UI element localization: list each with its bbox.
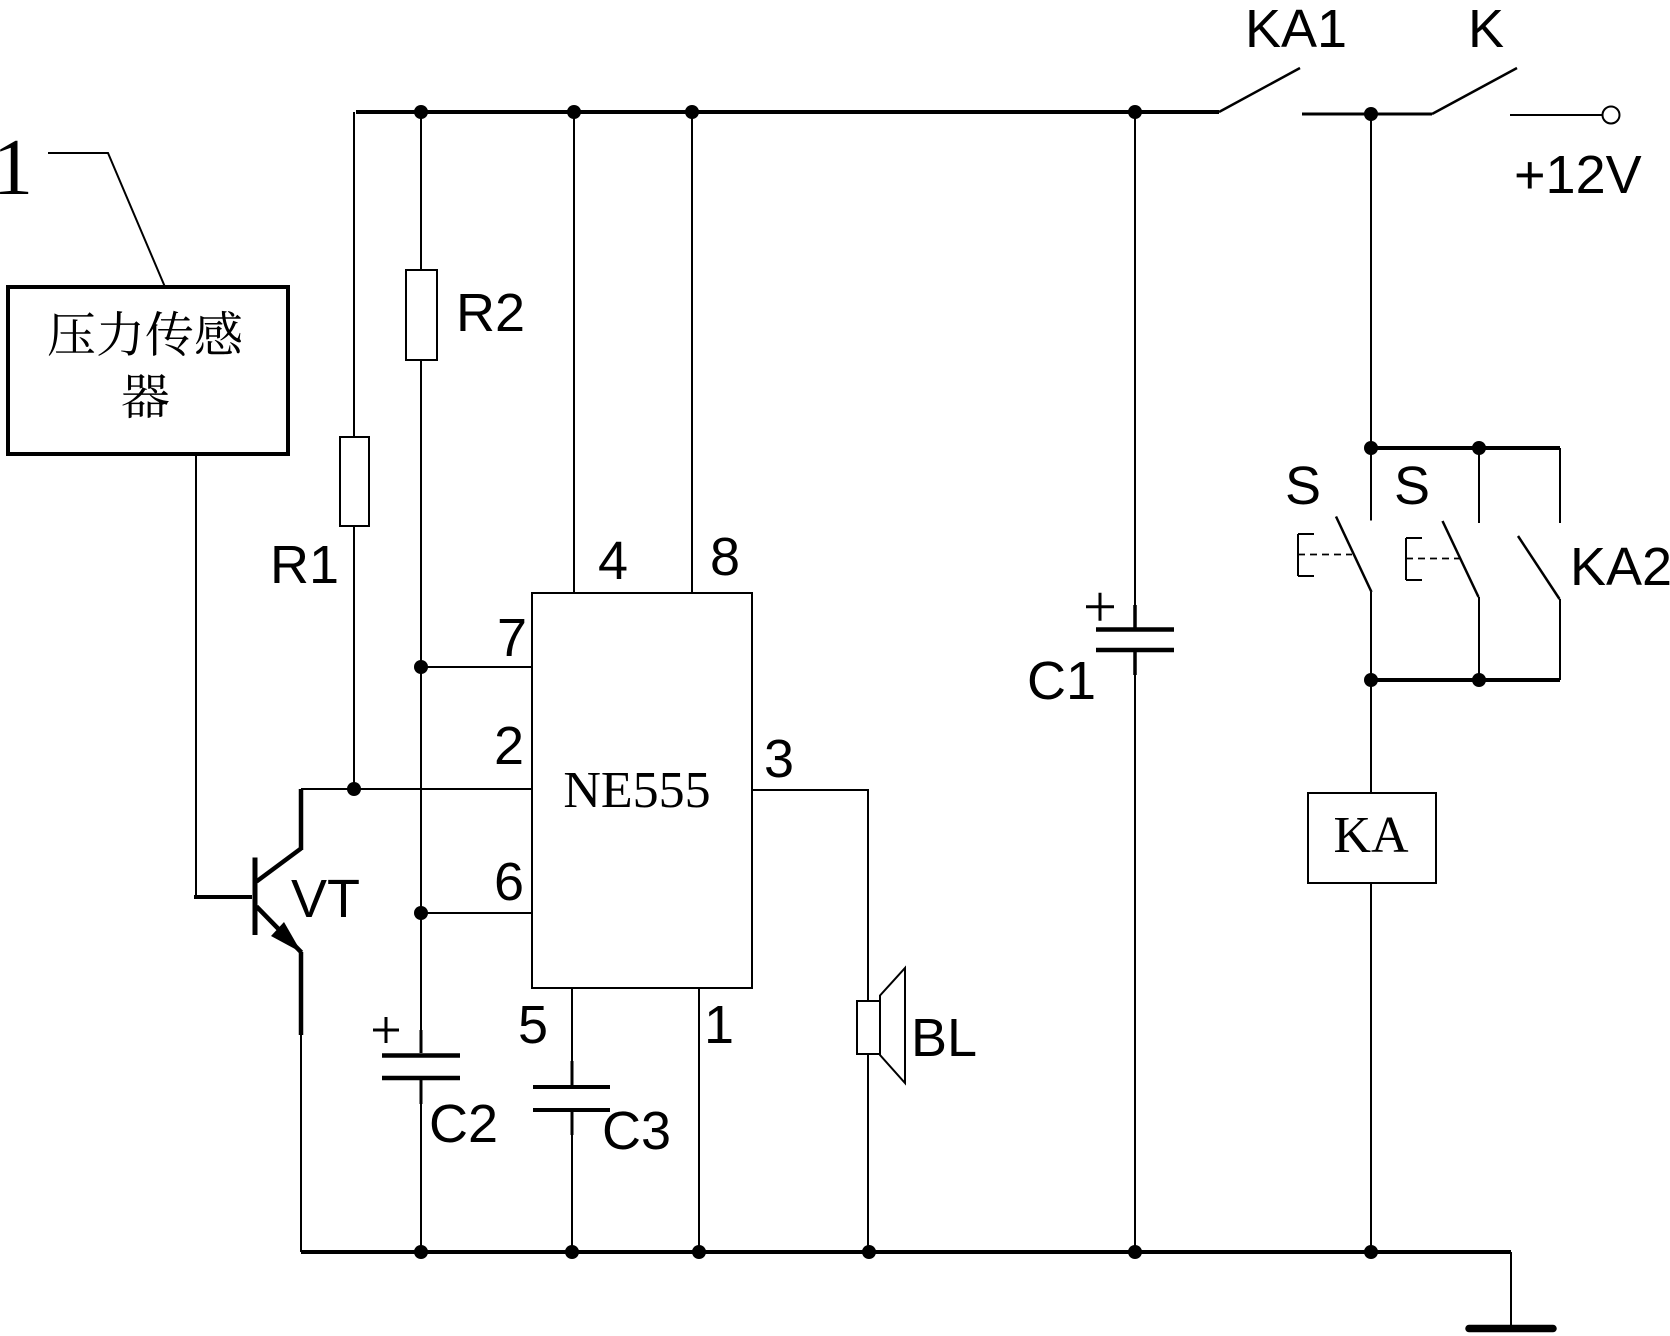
svg-text:KA1: KA1: [1245, 0, 1347, 59]
node junction dot S2 top: [1472, 441, 1486, 455]
switch S2 actuator bracket: [1406, 538, 1422, 580]
node junction dot S2 bottom: [1472, 673, 1486, 687]
svg-text:KA: KA: [1333, 807, 1409, 864]
switch S1 pushbutton: [1370, 448, 1372, 521]
svg-text:2: 2: [494, 716, 524, 776]
transistor VT emitter arrowhead: [271, 922, 302, 953]
svg-text:C1: C1: [1027, 651, 1096, 711]
svg-text:K: K: [1468, 0, 1504, 59]
svg-text:+12V: +12V: [1514, 145, 1642, 205]
wire top supply bus: [356, 110, 1219, 114]
node junction dot K branch: [1364, 107, 1378, 121]
relay coil KA box: [1308, 793, 1436, 883]
node junction dot BL/gnd: [862, 1245, 876, 1259]
node junction dot pin4/top bus: [567, 105, 581, 119]
wire leader line callout 1: [48, 153, 165, 287]
wire between KA1 and K: [1302, 113, 1432, 116]
svg-text:4: 4: [598, 531, 628, 591]
wire pin 3 to speaker: [752, 790, 868, 1001]
wire K to +12V terminal: [1510, 114, 1602, 116]
node junction dot C1/gnd: [1128, 1245, 1142, 1259]
wire pin2 net (VT collector - R1 - NE555 pin2): [301, 788, 532, 790]
wire sensor output to VT base: [195, 454, 197, 897]
wire ground bus: [301, 1250, 1511, 1254]
node junction dot C1/top bus: [1128, 105, 1142, 119]
node junction dot KA/gnd: [1364, 1245, 1378, 1259]
wire S section bottom rail: [1371, 678, 1560, 682]
svg-text:8: 8: [710, 527, 740, 587]
capacitor C1 polarity plus: [1086, 593, 1114, 621]
wire speaker to ground bus: [867, 1054, 869, 1252]
wire ground bus drop: [1510, 1252, 1512, 1326]
svg-text:6: 6: [494, 852, 524, 912]
node junction dot R2/pin7: [414, 660, 428, 674]
resistor R2: [420, 112, 422, 270]
capacitor C1: [1134, 112, 1136, 628]
node junction dot R2/top bus: [414, 105, 428, 119]
wire KA coil to ground bus: [1370, 883, 1372, 1252]
speaker BL: [857, 1001, 880, 1054]
svg-text:NE555: NE555: [563, 762, 710, 819]
svg-text:S: S: [1285, 456, 1321, 516]
capacitor C2: [420, 913, 422, 1053]
node junction dot R2/pin6: [414, 906, 428, 920]
label pressure sensor text line 2: [122, 374, 168, 418]
switch KA2 contact: [1559, 448, 1561, 523]
switch K blade: [1432, 68, 1517, 114]
wire pin 5: [571, 988, 573, 1061]
node junction dot S1 bottom: [1364, 673, 1378, 687]
node junction dot C3/gnd: [565, 1245, 579, 1259]
wire K branch down to S rail: [1370, 114, 1372, 448]
label pressure sensor text line 1: [49, 311, 241, 418]
svg-text:1: 1: [704, 995, 734, 1055]
wire pin 6 stub: [421, 912, 532, 914]
svg-text:C2: C2: [429, 1094, 498, 1154]
resistor R1: [353, 112, 355, 437]
capacitor C2 polarity plus: [373, 1017, 399, 1043]
svg-text:VT: VT: [291, 869, 360, 929]
wire VT emitter to ground bus: [300, 1035, 302, 1252]
wire pin 8: [691, 112, 693, 593]
node junction dot pin1/gnd: [692, 1245, 706, 1259]
block pressure sensor box: [8, 287, 288, 454]
svg-text:5: 5: [518, 995, 548, 1055]
svg-text:S: S: [1394, 456, 1430, 516]
node junction dot R1/pin2: [347, 782, 361, 796]
svg-text:KA2: KA2: [1570, 537, 1670, 597]
node junction dot C2/gnd: [414, 1245, 428, 1259]
switch S1 actuator bracket: [1298, 534, 1314, 576]
svg-text:7: 7: [497, 608, 527, 668]
node junction dot S1 top: [1364, 441, 1378, 455]
svg-text:3: 3: [764, 729, 794, 789]
op-amp U1 NE555 box: [532, 593, 752, 988]
node +12V terminal circle: [1603, 107, 1620, 124]
svg-text:1: 1: [0, 124, 33, 212]
svg-text:BL: BL: [911, 1008, 977, 1068]
transistor Q VT: [255, 789, 302, 1035]
wire pin 7 stub: [421, 666, 532, 668]
wire pin 4: [573, 112, 575, 593]
svg-text:R1: R1: [270, 535, 339, 595]
switch S2 pushbutton: [1478, 448, 1480, 523]
wire pin 1: [698, 988, 700, 1252]
svg-text:R2: R2: [456, 283, 525, 343]
ground symbol: [1469, 1325, 1553, 1333]
capacitor C3: [571, 1061, 574, 1085]
switch KA1 blade: [1219, 68, 1300, 112]
svg-text:C3: C3: [602, 1101, 671, 1161]
node junction dot pin8/top bus: [685, 105, 699, 119]
wire S rail to KA coil: [1370, 680, 1372, 793]
wire S section top rail: [1371, 446, 1560, 450]
